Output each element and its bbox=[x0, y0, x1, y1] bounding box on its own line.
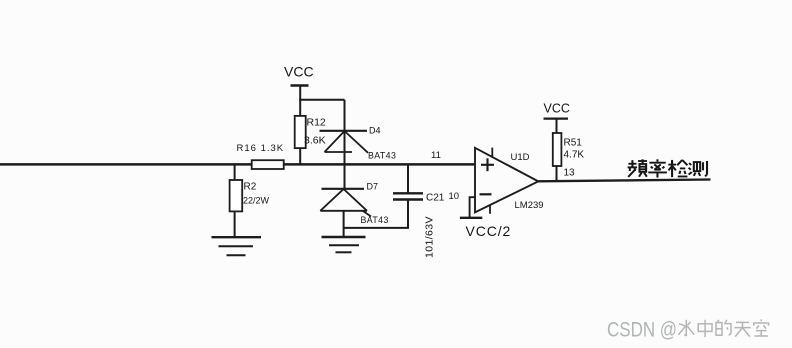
wire: VCC branch horizontal to diode column bbox=[299, 99, 344, 101]
wire: capacitor branch from main net bbox=[407, 164, 409, 193]
svg-text:D4: D4 bbox=[369, 126, 381, 136]
resistor R16 body bbox=[252, 160, 284, 169]
wire: branch down to R2 bbox=[234, 164, 236, 180]
wire: main net segment R16 to op-amp bbox=[284, 163, 476, 166]
svg-text:R51: R51 bbox=[564, 138, 583, 149]
svg-text:VCC/2: VCC/2 bbox=[466, 223, 512, 239]
wire: output net bbox=[538, 180, 710, 182]
op-amp power pin stub (top) bbox=[491, 148, 493, 158]
op-amp power pin stub (bottom) bbox=[489, 205, 491, 214]
wire: VCC bar down to R12 bbox=[299, 86, 301, 117]
capacitor C21 plates bbox=[393, 193, 423, 199]
ground symbol (left) bbox=[212, 237, 262, 255]
wire: D7 anode to ground bbox=[343, 211, 345, 237]
svg-text:LM239: LM239 bbox=[515, 200, 544, 211]
svg-text:4.7K: 4.7K bbox=[564, 150, 585, 161]
svg-text:U1D: U1D bbox=[511, 152, 530, 163]
svg-text:13: 13 bbox=[564, 168, 576, 179]
watermark chinese glyphs 水中的天空 bbox=[678, 319, 768, 337]
svg-text:BAT43: BAT43 bbox=[368, 151, 396, 161]
diode D7 (BAT43) cathode bar bbox=[322, 188, 365, 190]
svg-text:10: 10 bbox=[449, 191, 460, 202]
power VCC (left) bar symbol bbox=[291, 84, 309, 86]
VCC/2 bar symbol bbox=[460, 217, 482, 219]
glyph 空 bbox=[754, 319, 769, 336]
svg-text:R2: R2 bbox=[244, 182, 257, 193]
wire: R2 to ground bbox=[234, 211, 236, 236]
svg-text:VCC: VCC bbox=[284, 64, 314, 80]
diode D4 (BAT43) cathode bar bbox=[320, 130, 368, 132]
svg-text:3.6K: 3.6K bbox=[304, 135, 326, 147]
glyph 检 bbox=[668, 160, 687, 177]
op-amp plus input marker bbox=[481, 158, 494, 171]
glyph 水 bbox=[678, 320, 694, 336]
net label 频率检测 (hand-drawn glyphs) bbox=[628, 159, 707, 177]
wire: minus input to VCC/2 bbox=[470, 197, 475, 217]
wire: R51 to output net bbox=[556, 166, 558, 181]
diode D7 triangle bbox=[320, 189, 371, 217]
resistor R51 body bbox=[553, 133, 562, 166]
svg-text:VCC: VCC bbox=[544, 102, 570, 116]
wire: capacitor bottom to ground net bbox=[344, 200, 408, 228]
glyph 的 bbox=[716, 320, 731, 336]
svg-text:R12: R12 bbox=[307, 117, 326, 129]
svg-text:R16 1.3K: R16 1.3K bbox=[237, 143, 285, 154]
resistor R12 body bbox=[295, 116, 306, 148]
svg-text:101/63V: 101/63V bbox=[424, 216, 436, 258]
diode D4 triangle bbox=[325, 131, 369, 153]
wire: VCC bar to R51 bbox=[556, 119, 558, 134]
svg-text:CSDN @: CSDN @ bbox=[607, 319, 677, 342]
resistor R2 body bbox=[230, 180, 243, 211]
glyph 测 bbox=[689, 161, 707, 176]
wire: diode column vertical (VCC branch through D4, main net, D7) bbox=[344, 100, 346, 189]
glyph 中 bbox=[698, 320, 712, 337]
glyph 率 bbox=[648, 159, 667, 177]
svg-text:C21: C21 bbox=[426, 193, 445, 204]
wire: R12 to main net bbox=[299, 148, 301, 164]
glyph 天 bbox=[734, 322, 750, 336]
power VCC (right) bar symbol bbox=[544, 117, 569, 119]
svg-text:22/2W: 22/2W bbox=[243, 196, 270, 206]
svg-text:D7: D7 bbox=[367, 182, 379, 192]
wire: main input net, left segment bbox=[0, 163, 253, 166]
op-amp minus input marker bbox=[480, 193, 492, 195]
op-amp U1D triangle bbox=[475, 148, 538, 213]
glyph 频 bbox=[628, 159, 647, 177]
ground symbol (middle) bbox=[322, 237, 366, 252]
svg-text:BAT43: BAT43 bbox=[361, 215, 389, 225]
svg-text:11: 11 bbox=[431, 150, 441, 161]
